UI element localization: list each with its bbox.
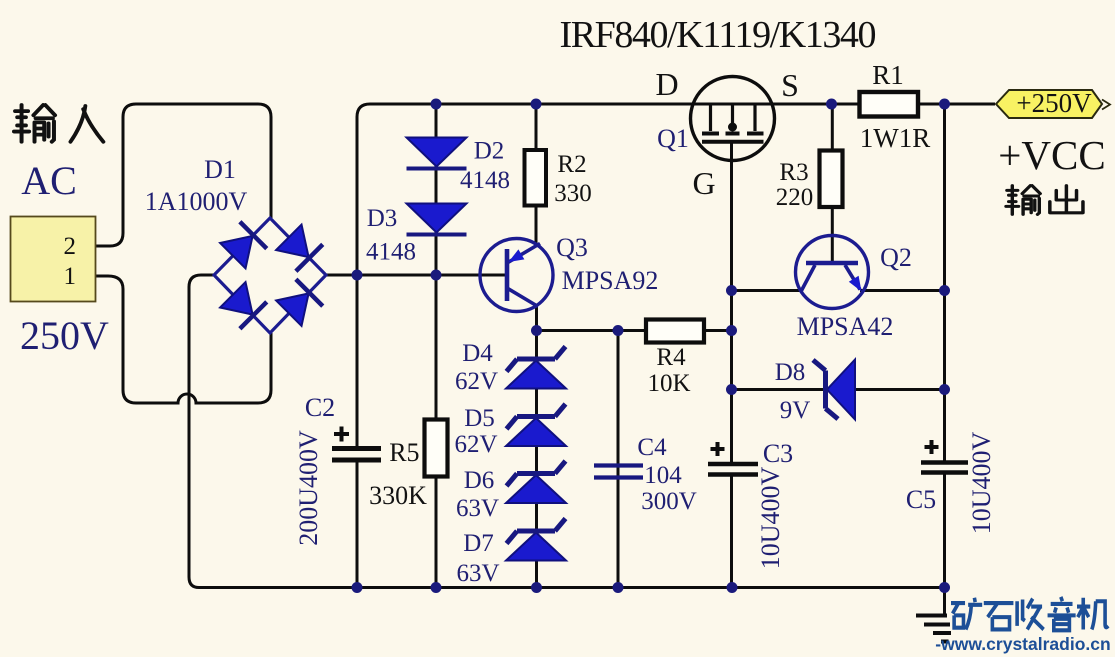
svg-text:D4: D4 (462, 340, 493, 367)
output tag +250V (996, 90, 1102, 118)
svg-text:4148: 4148 (460, 167, 510, 194)
zener D5 (506, 404, 566, 446)
wire: D8 row y=389.5 (732, 388, 945, 391)
svg-text:AC: AC (21, 158, 77, 203)
svg-text:-www.crystalradio.cn: -www.crystalradio.cn (935, 634, 1110, 654)
wire: mid row y=330.5 zener top to R4 to gate line (537, 329, 732, 332)
resistor R4 (646, 320, 704, 343)
bridge rectifier D1 outline (214, 218, 326, 333)
svg-text:62V: 62V (455, 368, 498, 395)
svg-text:R5: R5 (389, 438, 419, 467)
svg-text:S: S (781, 67, 799, 103)
bridge diode upper-left (219, 222, 266, 269)
wire: bottom rail (199, 586, 945, 589)
capacitor C4 (594, 466, 643, 478)
diode D3 (407, 204, 467, 235)
node D3 base (431, 270, 442, 281)
hanzi 输入 input label (14, 105, 103, 142)
svg-text:Q3: Q3 (556, 233, 588, 262)
svg-text:D5: D5 (464, 405, 495, 432)
wire: DC plus up to top rail and top rail to output tag (357, 104, 995, 275)
zener D4 (506, 347, 566, 389)
transistor Q3 MPSA92 (480, 239, 553, 312)
node S (826, 99, 837, 110)
node Q2 emitter rail (939, 285, 950, 296)
svg-text:D8: D8 (775, 359, 806, 386)
node gate Q2 collector (726, 285, 737, 296)
zener D7 (506, 519, 566, 561)
svg-text:1A1000V: 1A1000V (145, 187, 248, 216)
wire: ground stub (943, 588, 946, 614)
node R4 left C4 (613, 325, 624, 336)
resistor R5 (425, 420, 448, 477)
svg-text:+250V: +250V (1016, 88, 1092, 118)
wire: terminal 2 loop to bridge top (95, 104, 271, 246)
node D8 right (939, 384, 950, 395)
svg-text:9V: 9V (780, 397, 811, 424)
svg-text:104: 104 (644, 462, 682, 489)
node top rail R2 (531, 99, 542, 110)
svg-text:300V: 300V (641, 488, 697, 515)
svg-text:63V: 63V (456, 560, 499, 587)
C5 plus sign (925, 440, 939, 454)
diode D2 (407, 138, 467, 169)
svg-text:10K: 10K (647, 370, 690, 397)
svg-text:1W1R: 1W1R (860, 123, 931, 153)
svg-text:250V: 250V (20, 313, 109, 358)
node DC plus (352, 270, 363, 281)
svg-text:IRF840/K1119/K1340: IRF840/K1119/K1340 (560, 14, 877, 56)
node zener top (531, 325, 542, 336)
svg-text:2: 2 (64, 233, 77, 260)
svg-text:4148: 4148 (366, 239, 416, 266)
svg-text:D2: D2 (474, 138, 505, 165)
svg-text:+VCC: +VCC (998, 132, 1105, 178)
capacitor C2 (332, 449, 381, 461)
svg-text:D3: D3 (367, 205, 398, 232)
svg-text:330: 330 (554, 180, 592, 207)
svg-text:C5: C5 (906, 485, 936, 514)
wire: R2 and zener chain branch x=536 (535, 104, 539, 588)
wire: bridge minus to bottom rail (189, 275, 214, 588)
svg-text:220: 220 (776, 184, 814, 211)
wire: bridge plus stub (326, 274, 357, 277)
svg-text:MPSA92: MPSA92 (562, 266, 659, 295)
node top rail D2 (431, 99, 442, 110)
svg-text:C2: C2 (305, 393, 335, 422)
svg-text:R3: R3 (779, 159, 808, 186)
terminal block (11, 217, 96, 302)
svg-text:R1: R1 (872, 60, 904, 90)
C2 plus sign (334, 427, 349, 442)
resistor R3 (820, 151, 843, 208)
node bottom zener (531, 582, 542, 593)
node bottom C5 ground (939, 582, 950, 593)
zener D8 (813, 360, 855, 420)
C3 plus sign (711, 442, 725, 456)
node bottom C4 (613, 582, 624, 593)
bridge diode upper-right (275, 224, 322, 271)
zener D6 (506, 461, 566, 503)
hanzi 输出 output label (1006, 186, 1083, 215)
resistor R1 (860, 92, 919, 117)
capacitor C5 (921, 463, 968, 473)
output tag tip chevron (1102, 100, 1110, 110)
node R1 out (939, 99, 950, 110)
ground (916, 616, 951, 642)
svg-text:R4: R4 (656, 344, 686, 371)
svg-text:1: 1 (64, 263, 77, 290)
bridge diode lower-left (219, 281, 266, 328)
svg-text:D6: D6 (464, 467, 495, 494)
wire: terminal 1 loop to bridge bottom (95, 276, 271, 403)
svg-text:Q2: Q2 (880, 243, 912, 272)
wire: D2 D3 R5 branch x=436 (435, 104, 438, 588)
svg-text:D7: D7 (463, 530, 494, 557)
node D8 left (726, 384, 737, 395)
wire: C4 branch x=618 (617, 331, 620, 588)
svg-text:63V: 63V (456, 495, 499, 522)
capacitor C3 (708, 464, 758, 475)
svg-text:62V: 62V (454, 431, 497, 458)
svg-text:C3: C3 (763, 439, 793, 468)
wire: node row y=275 to Q3 base (357, 274, 505, 277)
svg-text:10U400V: 10U400V (756, 467, 785, 570)
watermark crystal radio logo (951, 597, 1108, 630)
node bottom R5 (431, 582, 442, 593)
transistor Q2 MPSA42 (796, 236, 869, 309)
svg-text:10U400V: 10U400V (967, 432, 996, 535)
wire: Q2 collector row y=290.5 (732, 289, 945, 292)
resistor R2 (525, 150, 547, 206)
wire: R3 to Q2 base x=832.3 (831, 104, 834, 261)
wire: C2 branch x=357 (356, 275, 359, 588)
bridge diode lower-right (275, 279, 322, 326)
svg-text:200U400V: 200U400V (294, 430, 323, 546)
wire: gate vertical x=731.5 (730, 142, 733, 588)
wire: right rail x=944.5 (943, 104, 946, 588)
svg-text:D1: D1 (204, 155, 236, 184)
svg-text:G: G (692, 165, 715, 201)
svg-text:D: D (655, 66, 678, 102)
svg-text:330K: 330K (369, 481, 427, 510)
svg-text:MPSA42: MPSA42 (797, 312, 894, 341)
svg-text:C4: C4 (637, 434, 667, 461)
svg-text:R2: R2 (557, 151, 586, 178)
node bottom C3 (727, 582, 738, 593)
MOSFET Q1 (691, 77, 775, 161)
node bottom C2 (352, 582, 363, 593)
node R4 right gate (726, 325, 737, 336)
svg-text:Q1: Q1 (657, 124, 689, 153)
